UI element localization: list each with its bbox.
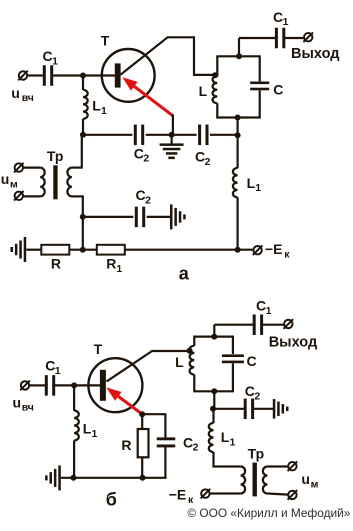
svg-text:L: L <box>175 354 184 370</box>
svg-text:1: 1 <box>92 428 98 440</box>
svg-text:1: 1 <box>116 263 122 275</box>
svg-text:C: C <box>256 298 266 314</box>
svg-text:© ООО «Кирилл и Мефодий»: © ООО «Кирилл и Мефодий» <box>187 508 350 520</box>
svg-text:к: к <box>188 494 194 506</box>
svg-text:1: 1 <box>55 365 61 377</box>
svg-text:T: T <box>94 341 103 357</box>
svg-text:вч: вч <box>22 92 34 104</box>
svg-text:2: 2 <box>193 442 199 454</box>
svg-text:1: 1 <box>52 56 58 68</box>
svg-text:L: L <box>221 429 230 445</box>
svg-text:u: u <box>11 85 20 101</box>
svg-text:L: L <box>199 83 208 99</box>
svg-text:Тр: Тр <box>47 148 64 164</box>
svg-text:C: C <box>136 187 146 203</box>
svg-text:Выход: Выход <box>291 45 340 62</box>
svg-text:C: C <box>273 82 283 98</box>
svg-text:а: а <box>179 264 190 284</box>
svg-text:2: 2 <box>205 156 211 168</box>
svg-text:Выход: Выход <box>269 333 318 350</box>
svg-text:C: C <box>273 9 283 25</box>
svg-text:2: 2 <box>254 390 260 402</box>
svg-text:1: 1 <box>266 305 272 317</box>
svg-text:м: м <box>311 478 319 490</box>
svg-text:1: 1 <box>230 436 236 448</box>
svg-text:L: L <box>247 175 256 191</box>
svg-text:R: R <box>121 437 131 453</box>
svg-text:Тр: Тр <box>248 446 265 462</box>
svg-text:u: u <box>13 394 22 410</box>
svg-text:u: u <box>301 471 310 487</box>
svg-text:вч: вч <box>22 402 34 414</box>
svg-text:к: к <box>284 249 290 261</box>
svg-text:б: б <box>106 489 117 509</box>
svg-text:C: C <box>195 149 205 165</box>
svg-text:1: 1 <box>255 182 261 194</box>
svg-text:L: L <box>92 98 101 114</box>
svg-text:R: R <box>106 256 116 272</box>
svg-text:u: u <box>1 171 10 187</box>
svg-text:−E: −E <box>169 487 187 503</box>
svg-text:2: 2 <box>145 195 151 207</box>
svg-text:C: C <box>43 48 53 64</box>
svg-text:C: C <box>247 353 257 369</box>
svg-text:−E: −E <box>265 241 283 257</box>
svg-text:R: R <box>51 256 61 272</box>
svg-text:1: 1 <box>283 16 289 28</box>
svg-text:1: 1 <box>101 105 107 117</box>
svg-text:м: м <box>10 178 18 190</box>
svg-text:T: T <box>101 33 110 49</box>
svg-text:2: 2 <box>143 153 149 165</box>
svg-text:C: C <box>183 434 193 450</box>
svg-text:C: C <box>45 357 55 373</box>
svg-text:L: L <box>83 420 92 436</box>
